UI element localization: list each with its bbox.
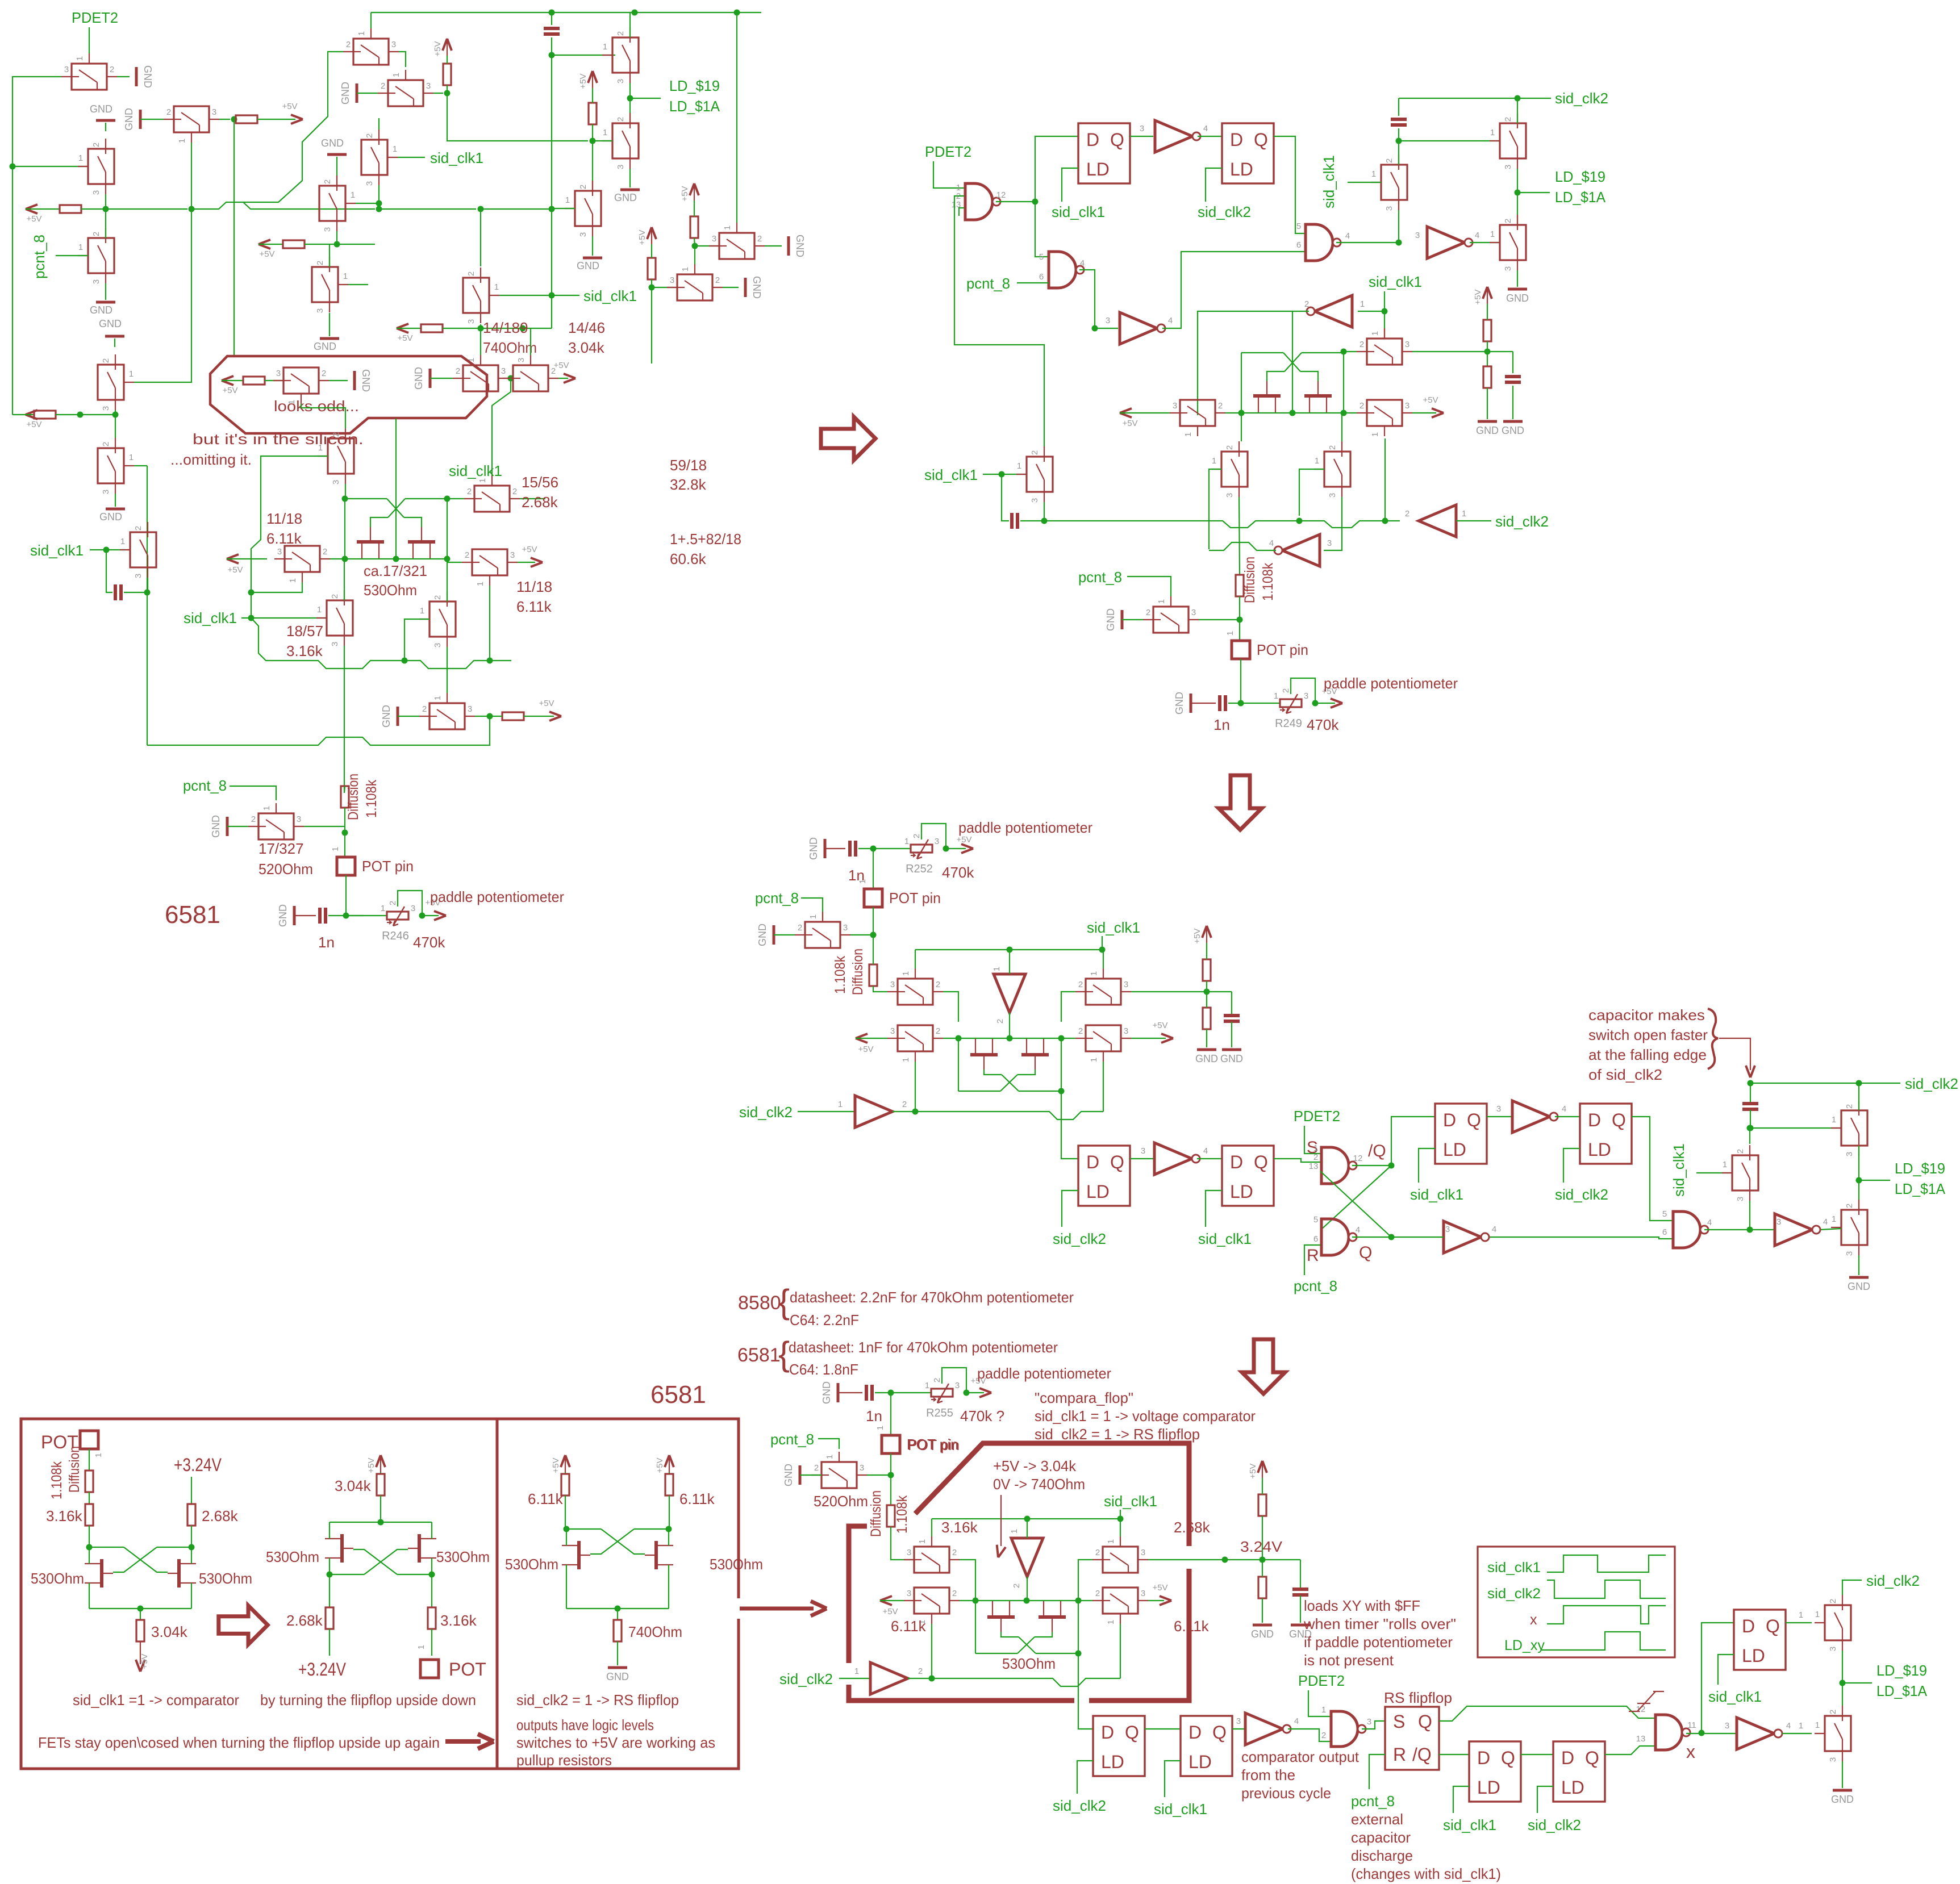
node POT junction sch1	[342, 830, 348, 836]
svg-text:pcnt_8: pcnt_8	[31, 235, 48, 279]
svg-text:D: D	[1086, 130, 1099, 150]
svg-text:520Ohm: 520Ohm	[258, 860, 313, 878]
svg-text:1: 1	[476, 582, 485, 586]
svg-text:GND: GND	[123, 108, 135, 131]
waveform sid_clk1	[1547, 1555, 1666, 1572]
wire S3.3 up to +5V row	[105, 209, 106, 238]
switch S27 (18/57)	[327, 600, 353, 636]
svg-text:sid_clk1: sid_clk1	[1487, 1560, 1541, 1576]
svg-text:sid_clk1: sid_clk1	[1670, 1143, 1687, 1197]
svg-text:2: 2	[388, 901, 398, 905]
svg-text:2: 2	[1828, 1599, 1838, 1603]
svg-text:32.8k: 32.8k	[670, 476, 707, 493]
svg-text:1n: 1n	[866, 1407, 882, 1425]
svg-text:3: 3	[277, 547, 282, 557]
svg-text:if paddle potentiometer: if paddle potentiometer	[1304, 1634, 1453, 1651]
wire diffusion to S52.3	[891, 1527, 914, 1560]
svg-text:POT pin: POT pin	[362, 858, 414, 875]
svg-text:4: 4	[1294, 1716, 1299, 1726]
+5V arrow left of S18	[1120, 408, 1132, 417]
wire S14.1 up to row578	[480, 328, 481, 355]
svg-text:sid_clk1: sid_clk1	[1320, 155, 1337, 208]
svg-text:12: 12	[1353, 1154, 1363, 1163]
node NAND3 out	[1396, 240, 1402, 246]
wire POT down subA	[89, 1449, 90, 1470]
svg-text:3: 3	[134, 574, 143, 578]
svg-text:sid_clk1: sid_clk1	[430, 149, 483, 166]
nand U4 (S gate)	[1321, 1147, 1349, 1184]
switch S44 (3.16k-like)	[898, 979, 933, 1005]
flip-flop DFF2	[1222, 123, 1274, 183]
wire DFF11.Q to S57.1	[1786, 1622, 1812, 1623]
wire S_y.2 to pair1 UR dot	[447, 498, 464, 499]
gnd below S_d	[629, 169, 631, 187]
svg-text:3: 3	[935, 837, 939, 846]
wire S_x.3 down to fet pair rail-left	[345, 484, 346, 499]
svg-text:{: {	[778, 1283, 790, 1321]
node sid_clk1 gate net sch2	[1382, 308, 1388, 315]
svg-text:4: 4	[1168, 316, 1173, 325]
svg-text:+5V: +5V	[222, 386, 237, 395]
gnd 1n row sch3	[824, 839, 827, 858]
cross wire Q to NAND4.13	[1320, 1171, 1391, 1237]
wires resistors to junctions subC	[565, 1495, 566, 1529]
node +5V row left junction	[103, 206, 109, 212]
svg-text:sid_clk2: sid_clk2	[1528, 1816, 1581, 1833]
wire LD node down to S58.3	[1842, 1683, 1843, 1706]
wire pair1 center up to blob	[395, 419, 397, 499]
svg-text:at the falling edge: at the falling edge	[1588, 1046, 1707, 1063]
svg-text:1: 1	[901, 971, 911, 976]
svg-text:2: 2	[1736, 1149, 1745, 1154]
wire POT pin down to 1n row sch2	[1240, 659, 1241, 703]
wire pcnt_8 to NAND2.6	[1017, 282, 1049, 283]
wire rail to label	[1517, 98, 1551, 99]
node cap bottom joins node1986 wire	[1748, 1125, 1754, 1131]
wire S24.1 down to bus1	[1384, 438, 1386, 521]
svg-text:+5V: +5V	[637, 229, 647, 245]
wire S25.3 down to cap junction	[147, 578, 148, 592]
svg-text:2: 2	[1503, 219, 1513, 223]
gnd right of S16	[765, 245, 782, 247]
svg-text:3.04k: 3.04k	[568, 339, 605, 356]
nand U7	[1331, 1711, 1358, 1747]
resistor lower divider sch2	[1483, 366, 1491, 388]
svg-text:12: 12	[1636, 1705, 1646, 1714]
wire pot to +5V sch2	[1315, 703, 1335, 704]
inverter INV8	[1154, 1143, 1192, 1175]
switch S55 (6.11k right)	[1103, 1588, 1138, 1614]
svg-text:R255: R255	[926, 1407, 953, 1419]
wire DFF7 LD to sid_clk2	[1077, 1761, 1093, 1794]
svg-text:2: 2	[798, 923, 802, 933]
svg-text:D: D	[1443, 1110, 1456, 1130]
switch S58	[1825, 1716, 1851, 1751]
svg-text:2.68k: 2.68k	[286, 1612, 323, 1629]
svg-text:1: 1	[1832, 1115, 1836, 1125]
svg-text:GND: GND	[783, 1464, 794, 1486]
svg-text:+5V: +5V	[655, 1457, 665, 1473]
wire DFF4.Q to NAND4.2	[1274, 1159, 1320, 1162]
fet flip-flop subC	[577, 1541, 581, 1569]
switch S_b2 in blob	[283, 367, 319, 394]
wire S12.1 stub right	[348, 284, 368, 285]
svg-text:discharge: discharge	[1351, 1847, 1413, 1864]
bus B (y=1312)	[147, 716, 490, 745]
switch S_d	[612, 123, 639, 158]
svg-text:1: 1	[420, 606, 424, 616]
svg-text:3: 3	[1173, 401, 1177, 411]
wire S15.1 up to row578	[530, 328, 531, 355]
switch S24	[1367, 400, 1402, 426]
svg-text:3: 3	[315, 308, 325, 313]
thick outline compara_flop	[849, 1443, 1189, 1701]
wire cap to pot sch2	[1228, 703, 1280, 704]
svg-text:GND: GND	[90, 304, 112, 316]
switch S19	[1027, 457, 1053, 492]
wire junction to pot R252	[873, 848, 911, 849]
node under POT pin sch4	[890, 1453, 891, 1480]
inverter INV1	[1155, 120, 1192, 152]
node column C	[692, 243, 698, 249]
svg-text:3: 3	[1225, 493, 1235, 498]
capacitor 1n sch3	[848, 841, 852, 857]
bus A (y=1163)	[251, 618, 511, 669]
wire S34.2 to pair1 rail	[447, 562, 462, 563]
nand U8	[1655, 1715, 1682, 1750]
svg-text:1: 1	[1321, 1705, 1326, 1715]
svg-text:530Ohm: 530Ohm	[266, 1548, 319, 1565]
svg-text:2: 2	[1225, 445, 1235, 450]
svg-text:3: 3	[1384, 206, 1394, 211]
switch S17	[677, 274, 712, 300]
wire x node up to DFF11.D	[1702, 1623, 1734, 1733]
svg-text:1: 1	[433, 696, 443, 700]
gnd subC	[617, 1641, 618, 1665]
wire GND to S2.2	[105, 123, 106, 131]
svg-text:GND: GND	[1506, 293, 1529, 304]
svg-text:530Ohm: 530Ohm	[710, 1556, 763, 1573]
svg-text:2: 2	[91, 232, 101, 236]
wire junction to S20.1	[1399, 140, 1500, 141]
wire node down to S21.3	[1517, 193, 1518, 225]
POT pin sch4	[882, 1435, 900, 1453]
switch S49	[1841, 1110, 1867, 1146]
wire junction up to S22.bottom	[1398, 200, 1399, 243]
svg-text:11/18: 11/18	[516, 578, 552, 595]
svg-text:GND: GND	[381, 705, 392, 728]
ramp icon	[1629, 1711, 1640, 1712]
wire LD node to label	[1842, 1682, 1872, 1684]
svg-text:GND: GND	[1502, 425, 1524, 436]
svg-text:D: D	[1742, 1616, 1755, 1636]
svg-text:3: 3	[1030, 498, 1040, 503]
svg-text:LD: LD	[1230, 1181, 1253, 1202]
svg-text:2.68k: 2.68k	[522, 494, 558, 511]
inverter INV7 (down)	[994, 974, 1025, 1013]
svg-text:2: 2	[346, 40, 351, 49]
svg-text:Q: Q	[1467, 1110, 1481, 1130]
RS flip-flop box	[1385, 1707, 1439, 1770]
svg-text:comparator output: comparator output	[1241, 1748, 1360, 1765]
node bus1 start	[1041, 518, 1048, 524]
wire NAND3 out to junction	[1336, 242, 1399, 243]
svg-text:3.16k: 3.16k	[440, 1612, 477, 1629]
svg-text:3: 3	[670, 275, 674, 285]
wire column B to S17.3	[652, 287, 676, 288]
svg-text:1: 1	[78, 243, 83, 252]
svg-text:59/18: 59/18	[670, 457, 707, 474]
arrow box2 to schematic4	[740, 1607, 814, 1611]
svg-text:+5V: +5V	[1423, 395, 1438, 405]
wire junction down to capacitor	[106, 550, 112, 592]
resistor 3.16k subB	[431, 1574, 432, 1607]
resistor 6.11k right subC	[669, 1472, 670, 1474]
svg-text:+5V: +5V	[26, 420, 41, 429]
svg-text:pullup resistors: pullup resistors	[516, 1752, 612, 1769]
node Diffusion sch2	[1237, 617, 1243, 623]
svg-text:3: 3	[101, 406, 111, 411]
svg-text:6581: 6581	[650, 1381, 706, 1409]
svg-text:3: 3	[1124, 1026, 1128, 1036]
wire node down to S23.1	[1384, 311, 1385, 338]
svg-text:Q: Q	[1212, 1722, 1227, 1743]
svg-text:FETs stay open\cosed when turn: FETs stay open\cosed when turning the fl…	[38, 1734, 440, 1751]
switch S_y	[474, 486, 510, 512]
wire S10.3 down to +5V row y368	[378, 185, 380, 209]
wire S6.1 down to +5V row	[191, 143, 192, 209]
wire S_i.1 left down to bus2	[1209, 469, 1221, 549]
wire sid_clk1 down to node	[1384, 291, 1385, 311]
svg-text:PDET2: PDET2	[1298, 1672, 1345, 1689]
wire left rail to S2.1	[12, 166, 88, 167]
inverter INV11	[1775, 1214, 1812, 1246]
wire S_e.1 to x975 vertical	[552, 208, 575, 209]
wire NAND1 pin2 long gate net	[954, 196, 1044, 448]
svg-text:3: 3	[1328, 493, 1337, 498]
wire S20.3 down to LD node	[1517, 169, 1518, 193]
svg-text:2: 2	[465, 550, 469, 560]
svg-text:+5V: +5V	[397, 333, 412, 343]
svg-text:Q: Q	[1359, 1243, 1372, 1262]
svg-text:5: 5	[1296, 222, 1301, 231]
wire S55.2 to fet rail right	[1078, 1600, 1092, 1601]
svg-text:+5V: +5V	[1152, 1021, 1167, 1030]
svg-text:C64: 2.2nF: C64: 2.2nF	[790, 1311, 859, 1329]
switch S7 (top middle)	[353, 39, 389, 65]
wire S57.2 up to sid_clk2	[1842, 1580, 1862, 1595]
svg-text:2: 2	[101, 442, 111, 446]
svg-text:1: 1	[1832, 1214, 1836, 1224]
svg-text:GND: GND	[577, 260, 599, 271]
switch S45	[1086, 979, 1121, 1005]
svg-text:6.11k: 6.11k	[891, 1618, 927, 1635]
wire S18.2 to rail	[1225, 412, 1241, 413]
svg-text:14/46: 14/46	[568, 319, 605, 336]
svg-text:5: 5	[1313, 1215, 1318, 1225]
svg-text:GND: GND	[142, 65, 153, 88]
wire S47.2 to fet rail-right	[1062, 1038, 1075, 1039]
wire pcnt_8 to S42.1	[1127, 577, 1171, 596]
svg-text:LD: LD	[1443, 1139, 1466, 1160]
svg-text:paddle potentiometer: paddle potentiometer	[1324, 675, 1458, 692]
wire DFF5 LD to sid_clk1	[1419, 1148, 1435, 1183]
fet flip-flop subA	[100, 1559, 103, 1588]
switch S28b	[429, 601, 456, 637]
wire S4.3 down to y730 row	[115, 410, 116, 415]
svg-text:capacitor: capacitor	[1351, 1829, 1411, 1846]
switch S54 (6.11k left)	[914, 1588, 949, 1614]
wire S5.3 up to y730 row	[115, 415, 116, 438]
svg-text:2: 2	[1095, 1548, 1100, 1557]
svg-text:470k: 470k	[413, 934, 445, 951]
svg-text:+5V: +5V	[26, 214, 41, 224]
svg-text:GND: GND	[1220, 1053, 1243, 1064]
svg-text:2: 2	[134, 526, 143, 530]
resistor 1.108k Diffusion subA	[85, 1471, 93, 1492]
wire pot to +5V sch4	[966, 1392, 984, 1393]
svg-text:1: 1	[94, 1453, 103, 1457]
wire DFF5.Q to INV9	[1487, 1116, 1512, 1117]
svg-text:1: 1	[1799, 1721, 1803, 1731]
switch S5	[98, 448, 124, 483]
wire S51.3 to node	[867, 1474, 891, 1476]
svg-text:pcnt_8: pcnt_8	[1078, 569, 1122, 586]
svg-text:740Ohm: 740Ohm	[483, 339, 537, 356]
svg-text:pcnt_8: pcnt_8	[1294, 1277, 1337, 1294]
svg-text:1: 1	[287, 400, 297, 404]
lower resistor divider sch4	[1258, 1577, 1266, 1598]
svg-text:530Ohm: 530Ohm	[1002, 1655, 1056, 1672]
svg-text:R252: R252	[906, 863, 933, 875]
switch S21	[1500, 225, 1526, 260]
wire resistor to flipflop subA	[89, 1526, 90, 1547]
nand U1	[965, 183, 992, 220]
svg-text:sid_clk2: sid_clk2	[1555, 90, 1608, 107]
wire pair2 right rail to S24 row	[1343, 412, 1344, 413]
wire junction to S_a.1	[552, 55, 615, 56]
resistor 6.11k left subC	[565, 1472, 566, 1474]
svg-text:+5V: +5V	[539, 699, 554, 708]
wire S17.1 up to node C	[694, 246, 695, 264]
wire junction down to NAND2.5	[1035, 202, 1049, 257]
svg-text:4: 4	[1356, 1225, 1360, 1235]
svg-text:2: 2	[1384, 158, 1394, 163]
switch S14	[463, 365, 498, 391]
wire bus A dip joins S33 pin1	[447, 669, 448, 670]
svg-text:1: 1	[331, 847, 340, 851]
+5V arrow subB	[380, 1455, 381, 1472]
svg-text:GND: GND	[1105, 608, 1116, 631]
wire INV15 out to S58.1	[1782, 1733, 1812, 1734]
svg-text:3: 3	[1304, 691, 1308, 701]
svg-text:1: 1	[288, 578, 298, 583]
node sid_clk2 rail	[1515, 95, 1521, 102]
switch S42	[1153, 607, 1188, 633]
svg-text:2: 2	[365, 133, 374, 138]
switch S47	[1086, 1025, 1121, 1051]
flip-flop DFF8	[1181, 1716, 1232, 1776]
nand U3	[1306, 224, 1333, 261]
top rail wire to sid_clk2	[371, 12, 761, 13]
svg-text:1: 1	[1106, 1539, 1116, 1544]
sid_clk1 rail sch3	[915, 949, 1102, 950]
svg-text:1: 1	[1490, 128, 1495, 137]
capacitor sch3 right	[1750, 1083, 1751, 1104]
wire resistor to rail subB	[380, 1495, 381, 1522]
svg-text:x: x	[1530, 1612, 1537, 1628]
svg-text:2: 2	[110, 65, 114, 74]
capacitor 1n sch1	[318, 908, 322, 924]
wire junction down to POT pin sch4	[890, 1393, 891, 1435]
svg-text:3: 3	[1236, 1716, 1241, 1726]
wire S52.2 down to fet rail	[960, 1560, 975, 1601]
gnd below S50	[1858, 1255, 1859, 1275]
svg-text:2: 2	[1078, 1026, 1083, 1036]
flip-flop DFF11	[1734, 1610, 1786, 1670]
svg-text:D: D	[1230, 130, 1243, 150]
gnd below S_e	[592, 236, 593, 256]
svg-text:470k: 470k	[942, 864, 974, 881]
svg-text:1: 1	[494, 282, 499, 292]
svg-text:1: 1	[918, 1539, 927, 1544]
svg-text:2: 2	[323, 179, 332, 184]
svg-text:3: 3	[1327, 538, 1332, 548]
wire NAND7 out to RS.S	[1362, 1721, 1385, 1729]
wire S19.3 down to bus1	[1044, 502, 1045, 521]
svg-text:1: 1	[391, 73, 401, 77]
wire node to label	[1517, 192, 1550, 193]
node cap row junction	[144, 590, 151, 596]
wire pair2 TR to S23 row	[1343, 352, 1344, 353]
wire NAND2 out right-down to INV2	[1079, 270, 1118, 328]
svg-text:2: 2	[932, 1378, 942, 1382]
svg-text:LD: LD	[1477, 1777, 1500, 1798]
wire Q node to INV10	[1391, 1236, 1444, 1238]
node 1986 sch3	[1747, 1125, 1753, 1131]
switch S8	[388, 80, 423, 106]
switch S_x	[328, 438, 354, 474]
svg-text:LD_xy: LD_xy	[1504, 1637, 1545, 1653]
svg-text:1: 1	[351, 190, 355, 200]
wire INV10 long to NAND6.6	[1486, 1237, 1672, 1239]
svg-text:by turning the flipflop upside: by turning the flipflop upside down	[260, 1691, 476, 1708]
bus1 comparator output row	[1044, 521, 1285, 528]
svg-text:sid_clk2: sid_clk2	[739, 1104, 793, 1121]
inverter INV4 (left-driving)	[1315, 295, 1352, 327]
wire PDET2 to NAND4.1	[1304, 1126, 1320, 1154]
svg-text:D: D	[1188, 1722, 1202, 1743]
svg-text:1: 1	[1225, 631, 1235, 636]
svg-text:6.11k: 6.11k	[266, 530, 302, 547]
annotation brace	[1708, 1009, 1718, 1069]
svg-text:4: 4	[1823, 1217, 1828, 1227]
svg-text:3: 3	[411, 904, 415, 913]
fet pair 4	[987, 1615, 1015, 1619]
waveform sid_clk2	[1547, 1580, 1666, 1598]
svg-text:/Q: /Q	[1368, 1142, 1386, 1160]
wire x259 long vertical down to bus B	[147, 466, 148, 745]
wire buffer out to bus	[893, 1111, 915, 1112]
switch S1 (PDET2 pass gate)	[72, 64, 107, 90]
svg-text:2: 2	[995, 1019, 1005, 1024]
switch S57	[1825, 1605, 1851, 1640]
switch S2	[88, 149, 114, 184]
wire 3.24V down subA	[191, 1477, 192, 1504]
wire between resistors subA	[89, 1492, 90, 1504]
svg-text:D: D	[1230, 1152, 1243, 1172]
svg-text:3: 3	[890, 1026, 895, 1036]
